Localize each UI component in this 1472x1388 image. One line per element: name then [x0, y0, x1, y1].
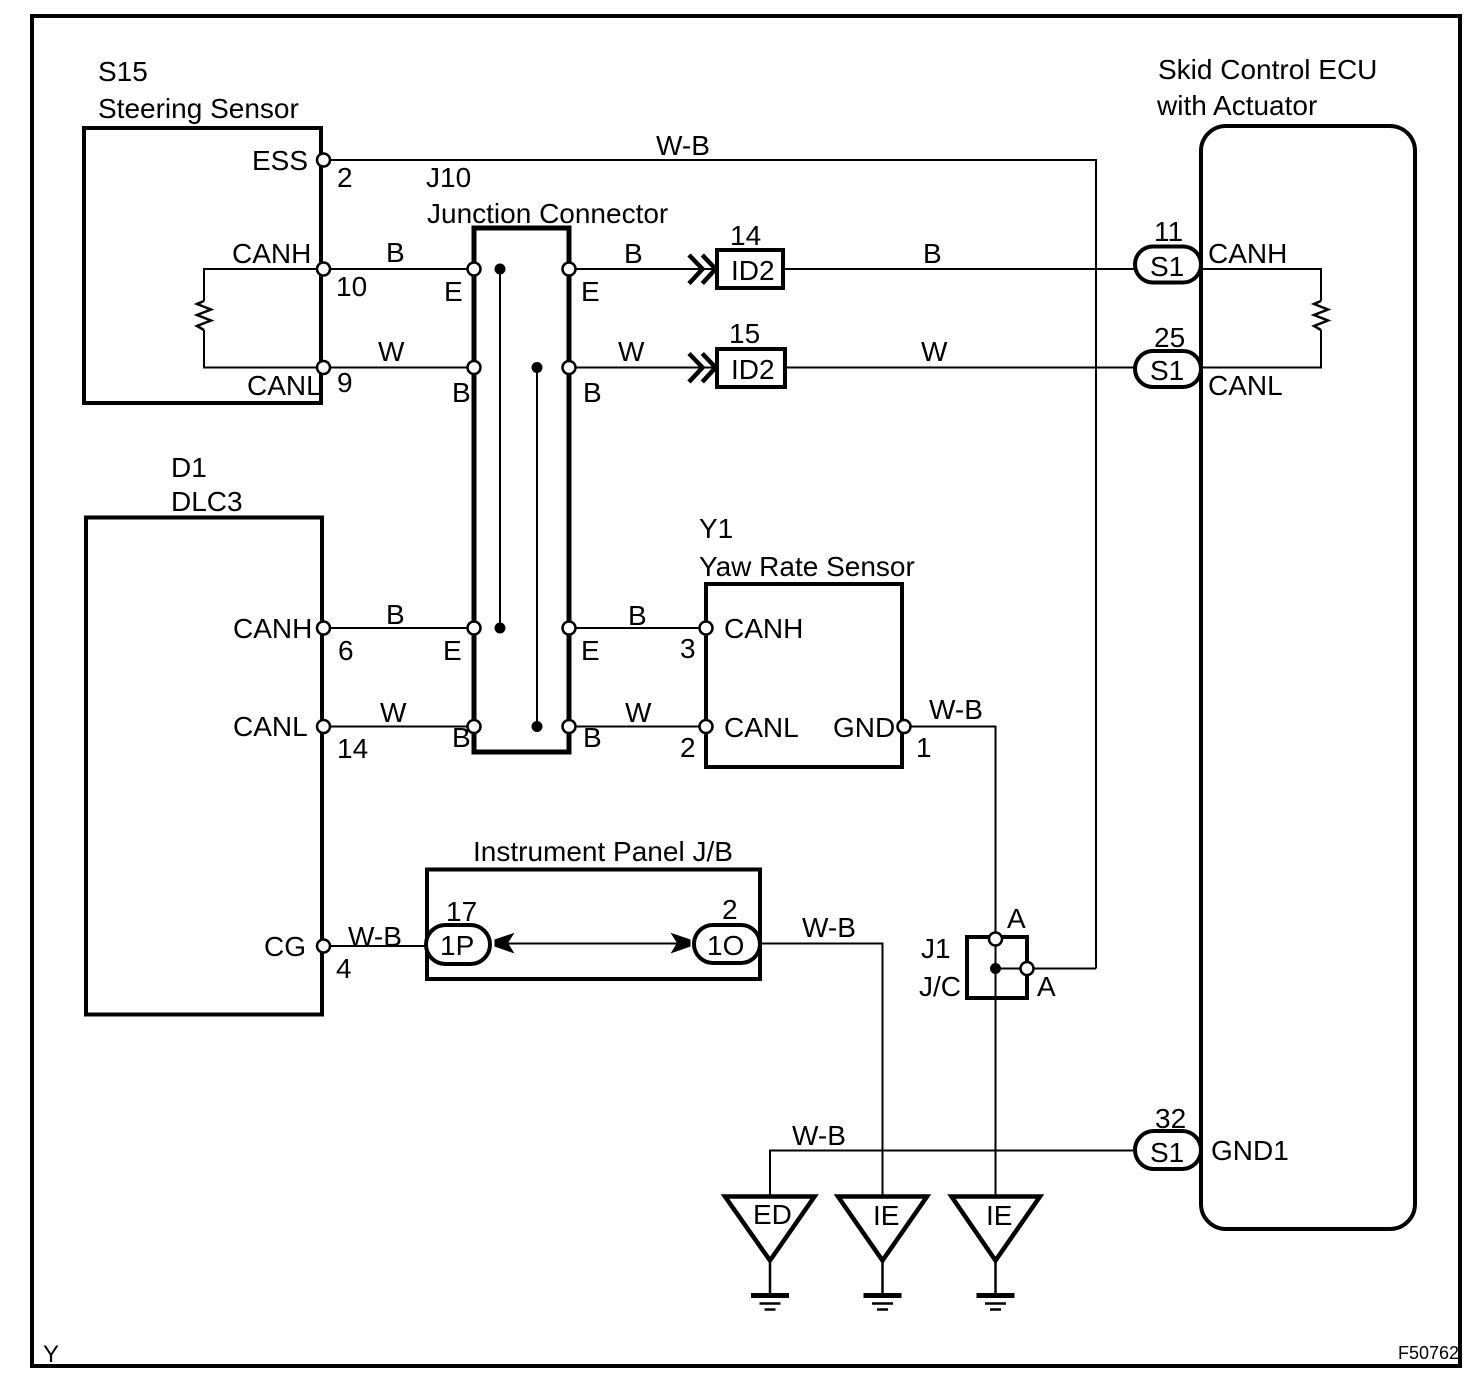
junction dot J1: [990, 963, 1001, 974]
pin CANL (S15 pin 9): [247, 361, 353, 401]
svg-text:W-B: W-B: [656, 130, 710, 161]
wire B: DLC3 pin6 to J10: [330, 627, 474, 629]
J10 edge pins bottom row: [468, 622, 576, 734]
connector S1 pin 32 GND1: [1135, 1103, 1289, 1169]
svg-text:CANL: CANL: [247, 370, 322, 401]
svg-text:Y1: Y1: [699, 513, 733, 544]
wire color labels row3 B: [386, 599, 647, 631]
svg-text:W: W: [921, 336, 948, 367]
svg-text:IE: IE: [873, 1200, 899, 1231]
ground triangle IE (right): [952, 1197, 1041, 1261]
svg-text:S15: S15: [98, 56, 148, 87]
svg-text:6: 6: [338, 635, 354, 666]
label W-B (top wire): [656, 130, 710, 161]
svg-text:W-B: W-B: [929, 694, 983, 725]
pin CG (DLC3 pin 4): [264, 921, 402, 984]
wire color labels row4 W: [380, 697, 652, 728]
wire W: J10 to Y1 pin2: [569, 726, 700, 728]
svg-text:CANL: CANL: [724, 712, 799, 743]
wire B: J10 to ID2 no.14: [569, 268, 717, 270]
wire J10 internal bus 2: [536, 368, 538, 727]
pin CANH (DLC3 pin 6): [233, 613, 354, 666]
svg-text:CANH: CANH: [1208, 238, 1287, 269]
svg-text:F50762: F50762: [1398, 1343, 1459, 1363]
svg-text:CANH: CANH: [724, 613, 803, 644]
wire color labels row2 W: [378, 336, 948, 367]
DLC3 box: [86, 518, 322, 1015]
svg-text:B: B: [624, 238, 643, 269]
pin CANL (DLC3 pin 14): [233, 711, 368, 764]
svg-text:4: 4: [336, 953, 352, 984]
svg-text:15: 15: [729, 318, 760, 349]
svg-text:1P: 1P: [440, 930, 474, 961]
svg-text:1: 1: [916, 732, 932, 763]
svg-text:GND1: GND1: [1211, 1135, 1289, 1166]
svg-text:CG: CG: [264, 931, 306, 962]
junction dot bus1 bottom: [495, 623, 506, 634]
arrow into 1O: [671, 933, 691, 954]
svg-text:B: B: [583, 377, 602, 408]
svg-text:W: W: [625, 697, 652, 728]
junction dot bus1 top: [495, 264, 506, 275]
resistor R (terminating, inside S15): [197, 269, 317, 368]
svg-text:GND: GND: [833, 712, 895, 743]
J10 edge pins top row: [468, 263, 576, 375]
svg-text:B: B: [386, 237, 405, 268]
svg-text:11: 11: [1154, 216, 1183, 247]
pin GND (Y1 pin 1): [833, 694, 983, 763]
svg-text:CANH: CANH: [232, 238, 311, 269]
svg-text:2: 2: [722, 894, 738, 925]
wire color labels row1 B: [386, 237, 942, 269]
wire ESS W-B top run: [330, 160, 1096, 969]
ground triangle IE (left): [838, 1197, 927, 1261]
connector 1P pin 17: [426, 896, 490, 964]
arrow into 1P: [495, 933, 515, 954]
connector ID2 no.14: [717, 220, 783, 288]
pin A (J1 right): [1021, 962, 1057, 1002]
svg-text:S1: S1: [1150, 251, 1184, 282]
instrument panel J/B box: [427, 870, 760, 980]
svg-text:3: 3: [680, 633, 696, 664]
label Y1 Yaw Rate Sensor: [699, 513, 915, 582]
svg-text:Yaw Rate Sensor: Yaw Rate Sensor: [699, 551, 915, 582]
junction dot bus2 bottom: [532, 721, 543, 732]
svg-text:CANL: CANL: [233, 711, 308, 742]
figure number F50762: [1398, 1343, 1459, 1363]
wire W: DLC3 pin14 to J10: [330, 726, 474, 728]
label J10: [426, 162, 668, 229]
wire J10 internal bus 1: [499, 269, 501, 628]
junction dot bus2 top: [532, 362, 543, 373]
skid control ECU box: [1201, 126, 1415, 1229]
pin CANH (S15 pin 10): [232, 238, 367, 302]
label Skid Control ECU: [1156, 54, 1377, 121]
svg-text:A: A: [1037, 971, 1056, 1002]
svg-text:Y: Y: [43, 1341, 59, 1368]
svg-text:32: 32: [1155, 1103, 1186, 1134]
ground symbol IE right: [977, 1261, 1015, 1310]
connector S1 pin 11 CANH: [1135, 216, 1287, 283]
svg-text:E: E: [581, 276, 600, 307]
yaw rate sensor Y1 box: [706, 584, 902, 767]
J10 pin letters E/B top: [444, 276, 602, 408]
wire W: J10 to ID2 no.15: [569, 367, 717, 369]
svg-text:S1: S1: [1150, 355, 1184, 386]
svg-text:J10: J10: [426, 162, 471, 193]
svg-text:B: B: [583, 722, 602, 753]
svg-text:1O: 1O: [707, 930, 744, 961]
svg-text:17: 17: [446, 896, 477, 927]
svg-text:E: E: [581, 635, 600, 666]
svg-text:Steering Sensor: Steering Sensor: [98, 93, 299, 124]
svg-text:D1: D1: [171, 452, 207, 483]
svg-text:B: B: [386, 599, 405, 630]
steering sensor S15 box: [84, 128, 321, 403]
svg-text:with Actuator: with Actuator: [1156, 90, 1317, 121]
junction connector J1 J/C box: [919, 933, 1027, 1002]
pin CANH (Y1 pin 3): [680, 613, 803, 664]
svg-text:25: 25: [1154, 322, 1185, 353]
svg-text:14: 14: [730, 220, 761, 251]
wire CANL W: S15 pin9 to J10: [330, 367, 474, 369]
splice chevron into ID2 no.14: [689, 255, 716, 284]
svg-text:S1: S1: [1150, 1137, 1184, 1168]
svg-text:Instrument Panel J/B: Instrument Panel J/B: [473, 836, 733, 867]
svg-text:E: E: [443, 635, 462, 666]
svg-text:B: B: [452, 722, 471, 753]
svg-text:14: 14: [337, 733, 368, 764]
pin ESS (S15 pin 2): [252, 145, 353, 193]
svg-text:W-B: W-B: [792, 1120, 846, 1151]
svg-text:9: 9: [337, 367, 353, 398]
svg-text:J1: J1: [921, 933, 951, 964]
wire B: ID2 no.14 to S1 pin11: [783, 268, 1136, 270]
svg-text:W: W: [378, 336, 405, 367]
svg-text:CANL: CANL: [1208, 370, 1283, 401]
wire inside J/B between arrows: [505, 943, 685, 945]
label D1 DLC3: [171, 452, 243, 517]
svg-text:J/C: J/C: [919, 971, 961, 1002]
svg-text:W-B: W-B: [802, 912, 856, 943]
svg-text:B: B: [628, 600, 647, 631]
label S15: [98, 56, 299, 124]
ground symbol IE left: [864, 1261, 902, 1310]
wire CANH B: S15 pin10 to J10: [330, 268, 474, 270]
resistor R (terminating, inside ECU): [1201, 269, 1328, 368]
svg-text:CANH: CANH: [233, 613, 312, 644]
wire B: J10 to Y1 pin3: [569, 627, 700, 629]
J10 pin letters E/B bottom: [443, 635, 602, 753]
wire W-B ground bus to S1 pin32: [770, 1120, 1136, 1197]
svg-text:10: 10: [336, 271, 367, 302]
wire CG W-B: DLC3 to 1P: [330, 945, 430, 947]
svg-text:B: B: [452, 377, 471, 408]
wire GND W-B: Y1 pin1 to J1: [910, 727, 996, 1197]
svg-text:ID2: ID2: [731, 354, 775, 385]
svg-text:W-B: W-B: [348, 921, 402, 952]
pin A (J1 top): [989, 903, 1026, 946]
svg-text:E: E: [444, 276, 463, 307]
svg-text:B: B: [923, 238, 942, 269]
sheet code Y: [43, 1341, 59, 1368]
label Instrument Panel J/B: [473, 836, 733, 867]
connector ID2 no.15: [717, 318, 785, 387]
connector 1O pin 2: [694, 894, 760, 963]
splice chevron into ID2 no.15: [689, 354, 716, 383]
svg-text:ED: ED: [753, 1199, 792, 1230]
svg-text:DLC3: DLC3: [171, 486, 243, 517]
svg-text:Skid Control ECU: Skid Control ECU: [1158, 54, 1377, 85]
wire W-B: 1O to ground IE: [760, 912, 883, 1197]
wire through J1: [995, 940, 997, 1197]
wire W: ID2 no.15 to S1 pin25: [785, 367, 1136, 369]
ground triangle ED: [725, 1197, 815, 1261]
svg-text:W: W: [618, 336, 645, 367]
connector S1 pin 25 CANL: [1135, 322, 1283, 401]
svg-text:ESS: ESS: [252, 145, 308, 176]
junction connector J10 box: [474, 228, 569, 752]
svg-text:W: W: [380, 697, 407, 728]
ground symbol ED: [751, 1261, 789, 1310]
svg-text:2: 2: [680, 732, 696, 763]
pin CANL (Y1 pin 2): [680, 712, 799, 763]
svg-text:ID2: ID2: [731, 255, 775, 286]
wire J1 dot to pin A right: [996, 968, 1097, 970]
svg-text:Junction Connector: Junction Connector: [427, 198, 668, 229]
svg-text:2: 2: [337, 162, 353, 193]
svg-text:IE: IE: [986, 1200, 1012, 1231]
svg-text:A: A: [1007, 903, 1026, 934]
